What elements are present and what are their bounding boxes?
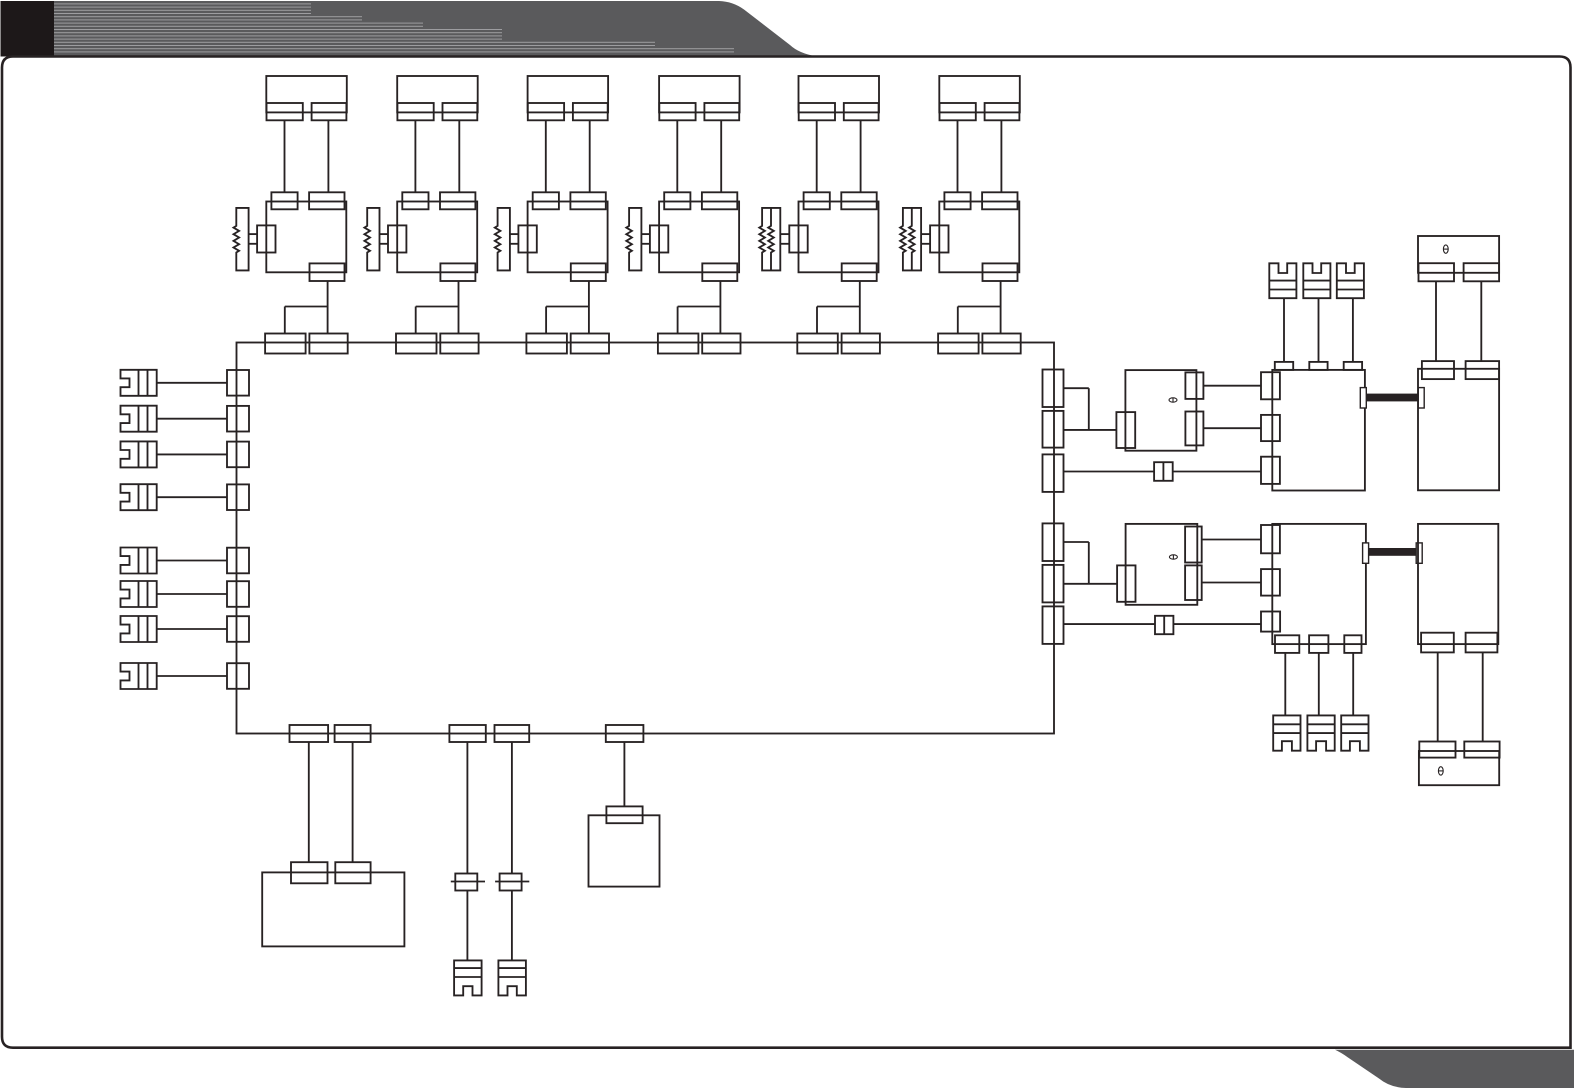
wire — [1352, 653, 1354, 716]
ground terminal connector G2 — [498, 960, 526, 995]
ECU bottom pin D — [495, 725, 530, 742]
left harness connector B-07 — [121, 616, 157, 642]
wire — [678, 306, 721, 308]
ignition coil T5 — [799, 192, 879, 281]
wire — [1063, 623, 1155, 625]
wire — [1063, 429, 1116, 431]
ECU left pin 1 — [227, 370, 249, 396]
ECU top pins block 6 — [938, 334, 1021, 354]
wire — [157, 628, 227, 630]
ECU top pins block 1 — [265, 334, 348, 354]
wire — [415, 307, 417, 334]
wire — [414, 120, 416, 192]
footer banner — [1335, 1050, 1574, 1088]
wire — [860, 120, 862, 192]
wire — [1437, 652, 1439, 741]
wire — [1318, 298, 1320, 362]
wire — [284, 120, 286, 192]
ECU bottom pin A — [290, 725, 329, 742]
ECU bottom pin B — [335, 725, 371, 742]
wire — [352, 742, 354, 862]
crank angle sensor S1 — [1116, 370, 1203, 451]
ignition coil T2 — [397, 192, 477, 281]
wire — [1063, 471, 1154, 473]
wire — [1000, 120, 1002, 192]
connector fork D-01 — [1269, 263, 1296, 298]
wire — [588, 281, 590, 334]
wire — [1202, 582, 1261, 584]
temperature sensor box TS2 — [1419, 742, 1500, 786]
ECU top pins block 5 — [797, 334, 880, 354]
wire — [957, 120, 959, 192]
injector/coil connector A-03 — [528, 76, 609, 120]
ignition coil T4 — [659, 192, 739, 281]
wire — [1284, 653, 1286, 716]
wire — [1480, 281, 1482, 361]
wire — [817, 306, 860, 308]
injector/coil connector A-02 — [397, 76, 478, 120]
wire — [458, 281, 460, 334]
ECU right pin 4 — [1043, 523, 1064, 561]
wire — [157, 418, 227, 420]
left harness connector B-02 — [121, 406, 157, 432]
wire — [466, 742, 468, 874]
inline splice J1 — [451, 874, 485, 891]
wire — [1283, 298, 1285, 362]
ECU left pin 2 — [227, 406, 249, 432]
ECU right pin 2 — [1043, 411, 1064, 448]
wire — [157, 453, 227, 455]
injector/coil connector A-05 — [799, 76, 880, 120]
spark plug P1 — [234, 208, 276, 271]
ECU left pin 5 — [227, 548, 249, 574]
wire — [511, 742, 513, 874]
connector fork D-04 — [1273, 715, 1300, 750]
junction box JB2 — [1261, 524, 1366, 653]
wire — [1088, 542, 1090, 584]
connector fork D-05 — [1307, 715, 1334, 750]
header black block — [1, 1, 55, 57]
ECU right pin 3 — [1043, 454, 1064, 492]
shielded cable bar (top) — [1360, 388, 1424, 408]
wire — [545, 307, 547, 334]
ECU bottom pin C — [449, 725, 485, 742]
wire — [545, 120, 547, 192]
ground terminal connector G1 — [454, 960, 482, 995]
spark plug P2 — [364, 208, 406, 271]
wire — [1318, 653, 1320, 716]
wire — [1203, 385, 1261, 387]
wire — [1202, 539, 1261, 541]
header banner — [54, 1, 817, 57]
ignition coil T1 — [266, 192, 346, 281]
inline splice J4 — [1155, 616, 1173, 634]
spark plug P3 — [495, 208, 537, 271]
wire — [466, 891, 468, 961]
left harness connector B-08 — [121, 663, 157, 689]
wire — [511, 891, 513, 961]
wire — [676, 120, 678, 192]
spark plug P6 — [900, 208, 948, 271]
wire — [1063, 583, 1117, 585]
wire — [416, 306, 459, 308]
wire — [157, 382, 227, 384]
wire — [1435, 281, 1437, 361]
ECU right pin 1 — [1043, 370, 1064, 408]
wire — [308, 742, 310, 862]
wire — [1352, 298, 1354, 362]
wire — [1203, 427, 1261, 429]
noise filter box NF1 — [1418, 361, 1499, 490]
left harness connector B-01 — [121, 370, 157, 396]
wire — [957, 307, 959, 334]
resistor box — [589, 806, 660, 886]
left harness connector B-04 — [121, 484, 157, 510]
noise filter box NF2 — [1418, 524, 1498, 653]
injector/coil connector A-04 — [659, 76, 740, 120]
connector fork D-03 — [1337, 263, 1364, 298]
ECU top pins block 3 — [526, 334, 609, 354]
ECU left pin 8 — [227, 663, 249, 689]
injector/coil connector A-01 — [266, 76, 347, 120]
wire — [1173, 623, 1261, 625]
wire — [1063, 387, 1089, 389]
left harness connector B-06 — [121, 581, 157, 607]
wire — [816, 120, 818, 192]
spark plug P5 — [759, 208, 807, 271]
wire — [816, 307, 818, 334]
wire — [546, 306, 589, 308]
wire — [284, 307, 286, 334]
cam position sensor S2 — [1117, 524, 1202, 605]
temperature sensor box TS1 — [1418, 236, 1499, 281]
wire — [677, 307, 679, 334]
ECU top pins block 2 — [396, 334, 479, 354]
wire — [157, 675, 227, 677]
ECU top pins block 4 — [658, 334, 741, 354]
wire — [157, 496, 227, 498]
wire — [157, 593, 227, 595]
wire — [157, 560, 227, 562]
ignition coil T6 — [939, 192, 1019, 281]
connector fork D-06 — [1341, 715, 1368, 750]
engine control unit main box — [237, 343, 1055, 734]
ECU right pin 6 — [1043, 606, 1064, 644]
inline splice J3 — [1154, 462, 1173, 481]
wire — [589, 120, 591, 192]
ECU left pin 4 — [227, 484, 249, 510]
inline splice J2 — [495, 874, 529, 891]
wire — [327, 281, 329, 334]
wire — [1063, 541, 1089, 543]
ECU left pin 7 — [227, 616, 249, 642]
ECU right pin 5 — [1043, 565, 1064, 603]
ECU bottom pin E — [606, 725, 644, 742]
spark plug P4 — [626, 208, 668, 271]
ignition coil T3 — [528, 192, 608, 281]
wire — [1000, 281, 1002, 334]
ECU left pin 3 — [227, 442, 249, 468]
junction box JB1 — [1261, 362, 1365, 491]
wire — [1173, 471, 1261, 473]
wire — [859, 281, 861, 334]
wire — [719, 281, 721, 334]
ECU left pin 6 — [227, 581, 249, 607]
left harness connector B-05 — [121, 548, 157, 574]
wire — [720, 120, 722, 192]
wire — [1088, 388, 1090, 430]
left harness connector B-03 — [121, 441, 157, 467]
shielded cable bar (bottom) — [1363, 543, 1423, 563]
wire — [623, 742, 625, 806]
wire — [285, 306, 328, 308]
wire — [458, 120, 460, 192]
wire — [327, 120, 329, 192]
wire — [1482, 652, 1484, 741]
injector/coil connector A-06 — [939, 76, 1020, 120]
wire — [958, 306, 1001, 308]
battery box — [262, 862, 404, 946]
connector fork D-02 — [1303, 263, 1330, 298]
